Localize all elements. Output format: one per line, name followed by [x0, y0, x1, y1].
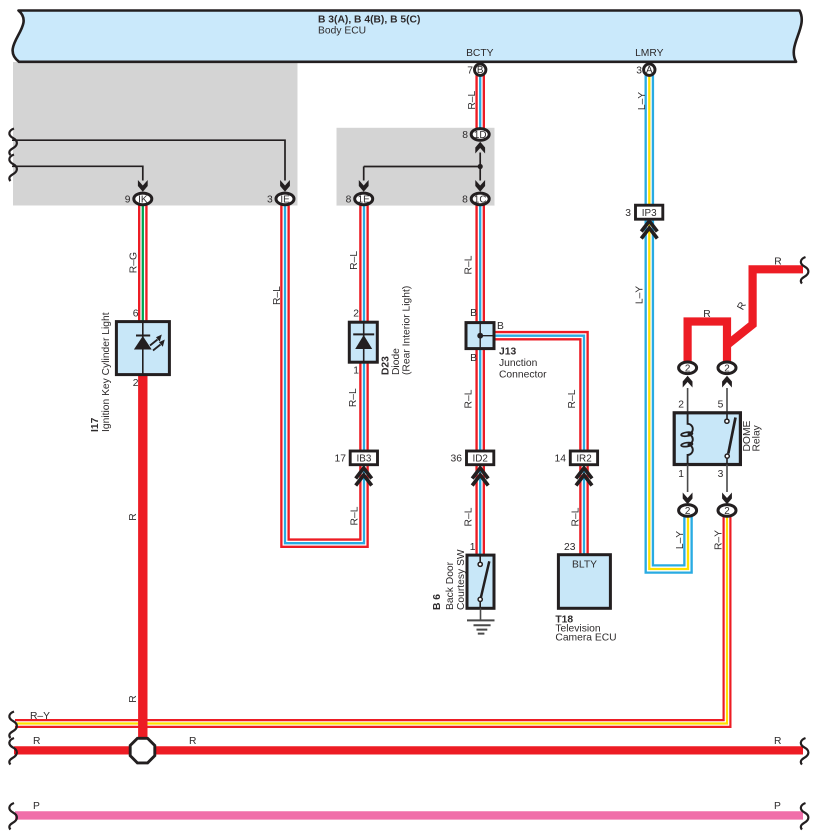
- wire label L-Y middle: [635, 286, 646, 304]
- svg-text:8: 8: [346, 195, 352, 206]
- connector IB3 pin 17: [335, 451, 378, 465]
- wire R-L branch from J13 right through IR2 to T18 pin 23: [492, 336, 584, 556]
- svg-text:B: B: [497, 321, 504, 332]
- svg-text:Diode: Diode: [391, 348, 402, 375]
- wire label L-Y upper: [637, 92, 648, 110]
- svg-text:R–L: R–L: [464, 507, 475, 526]
- wire label R-G: [129, 252, 140, 273]
- svg-text:Body ECU: Body ECU: [318, 26, 366, 37]
- ECU internal line to IK: [12, 166, 143, 180]
- svg-text:R: R: [33, 736, 40, 747]
- ECU internal line to IE: [12, 140, 285, 180]
- wire R-G from IK down to I17 pin 6: [138, 204, 148, 323]
- arrow into IK: [138, 180, 148, 192]
- wire R thick dome relay pins 2-5 bridge: [688, 322, 727, 364]
- middle block line: 1D arrow up: [475, 142, 485, 167]
- svg-text:36: 36: [451, 454, 463, 465]
- svg-text:I17: I17: [90, 417, 101, 432]
- wire R-L from 1C down through J13 and ID2 to B6 pin 1: [475, 204, 485, 556]
- svg-text:IE: IE: [280, 194, 290, 205]
- wire label R-L column 1E upper: [349, 251, 360, 270]
- svg-text:L–Y: L–Y: [675, 531, 686, 549]
- svg-text:R–L: R–L: [464, 255, 475, 274]
- svg-text:5: 5: [718, 400, 724, 411]
- component D23 diode (rear interior light): [349, 286, 412, 377]
- wire label R over relay bridge: [703, 309, 710, 320]
- connector oval 2 above relay pin 2: [679, 362, 697, 374]
- splice octagon junction: [130, 738, 155, 763]
- svg-text:IR2: IR2: [576, 453, 591, 464]
- connector oval 1C pin 8: [462, 193, 489, 205]
- wire R-L from 1E down to D23 pin 2: [359, 204, 369, 323]
- wire break squiggle R bottom left: [9, 738, 17, 765]
- svg-text:IK: IK: [138, 194, 148, 205]
- wire label R-L below B: [467, 90, 478, 109]
- component DOME relay: [674, 413, 762, 465]
- connector oval 2 above relay pin 5: [718, 362, 736, 374]
- gray connector shading block middle: [337, 128, 495, 206]
- svg-text:Back Door: Back Door: [445, 561, 456, 610]
- ground symbol below B6: [467, 608, 495, 633]
- wire label L-Y at relay: [675, 531, 686, 549]
- svg-text:Ignition Key Cylinder Light: Ignition Key Cylinder Light: [101, 312, 112, 432]
- svg-text:IB3: IB3: [356, 453, 371, 464]
- svg-text:2: 2: [353, 309, 359, 320]
- svg-text:2: 2: [133, 378, 139, 389]
- wire label R bottom left: [33, 736, 40, 747]
- wire label P right: [774, 801, 781, 812]
- svg-text:R–L: R–L: [350, 506, 361, 525]
- wire break squiggle P right: [801, 803, 809, 830]
- middle block line from junction dot to 1E and 1C: [364, 164, 483, 181]
- gray connector shading block left: [13, 62, 298, 206]
- svg-text:1: 1: [678, 469, 684, 480]
- component B6 back door courtesy switch: [432, 542, 494, 610]
- svg-text:R: R: [189, 736, 196, 747]
- dome relay pin lines top with arrows: [678, 376, 732, 412]
- wire L-Y from ECU pin 3A down to IP3 and U-turn up to dome relay connector: [649, 70, 688, 569]
- svg-text:3: 3: [267, 195, 273, 206]
- svg-text:R: R: [774, 257, 781, 268]
- svg-text:1: 1: [353, 366, 359, 377]
- wire R-L from IE down, U-turn right and up into IB3: [285, 204, 364, 543]
- svg-text:R–L: R–L: [272, 286, 283, 305]
- svg-text:R–L: R–L: [567, 389, 578, 408]
- wire R thick bottom bus: [14, 746, 803, 754]
- svg-text:BCTY: BCTY: [466, 48, 494, 59]
- svg-text:R: R: [128, 695, 139, 702]
- Body ECU banner: [13, 11, 802, 62]
- svg-text:2: 2: [678, 400, 684, 411]
- connector oval IK pin 9: [125, 193, 152, 205]
- svg-text:D23: D23: [381, 356, 392, 375]
- wire R-Y from dome relay pin 3 connector down and left to break: [15, 512, 727, 724]
- svg-text:L–Y: L–Y: [635, 286, 646, 304]
- wire label R on diagonal: [736, 300, 749, 312]
- connector IR2 pin 14: [555, 451, 598, 465]
- svg-text:1C: 1C: [474, 194, 487, 205]
- wire P pink bottom bus: [15, 811, 803, 819]
- wire label R vertical upper: [128, 513, 139, 520]
- svg-text:3: 3: [636, 66, 642, 77]
- wire R thick from bridge diagonally up to fusible link (right break): [727, 269, 803, 345]
- svg-text:B 6: B 6: [432, 594, 443, 610]
- svg-text:1E: 1E: [358, 194, 370, 205]
- wire label R-Y bottom: [30, 711, 50, 722]
- wire label R-L below IR2: [571, 507, 582, 526]
- svg-text:8: 8: [462, 195, 468, 206]
- wire break squiggle R bottom right: [801, 738, 809, 765]
- svg-text:1: 1: [470, 542, 476, 553]
- connector B circle pin 7: [467, 64, 486, 77]
- wire label R-L column 1E lower: [348, 388, 359, 407]
- svg-text:R: R: [774, 736, 781, 747]
- chevron pair below IB3: [356, 468, 372, 486]
- svg-text:2: 2: [685, 363, 691, 374]
- connector IP3 pin 3: [625, 205, 663, 219]
- wire break squiggle R-Y left: [9, 712, 17, 739]
- chevron pair below ID2: [472, 468, 488, 486]
- chevron pair below IR2: [576, 468, 592, 486]
- wire R thick from I17 pin 2 down to splice octagon: [138, 373, 147, 752]
- svg-text:B: B: [470, 353, 477, 364]
- arrow into IE: [280, 180, 290, 192]
- wire R-L from ECU pin 7B down to 1D: [475, 70, 485, 130]
- node BCTY label: [466, 48, 494, 59]
- svg-text:23: 23: [564, 542, 576, 553]
- svg-text:1D: 1D: [474, 130, 487, 141]
- wire label R bottom right: [774, 736, 781, 747]
- wire break squiggle line B: [9, 155, 17, 182]
- wire label R bottom mid: [189, 736, 196, 747]
- wire break squiggle P left: [9, 803, 17, 830]
- connector oval 2 below relay pin 3: [718, 505, 736, 517]
- svg-text:R–L: R–L: [467, 90, 478, 109]
- svg-text:IP3: IP3: [642, 208, 657, 219]
- svg-text:B: B: [470, 308, 477, 319]
- svg-text:B: B: [477, 65, 484, 76]
- connector oval 1D pin 8: [462, 129, 489, 141]
- svg-text:8: 8: [462, 130, 468, 141]
- svg-text:R–L: R–L: [348, 388, 359, 407]
- component J13 junction connector: [466, 308, 547, 381]
- connector ID2 pin 36: [451, 451, 494, 465]
- svg-text:P: P: [33, 801, 40, 812]
- chevron pair below IP3: [641, 221, 657, 239]
- wire R-L from D23 pin 1 down to IB3: [359, 361, 369, 458]
- svg-text:Connector: Connector: [499, 370, 547, 381]
- svg-text:17: 17: [335, 454, 347, 465]
- dome relay pin lines bottom with arrows: [678, 465, 732, 505]
- svg-text:P: P: [774, 801, 781, 812]
- wire break squiggle R top right: [801, 257, 809, 284]
- connector oval 2 below relay pin 1: [679, 505, 697, 517]
- svg-text:R–L: R–L: [464, 389, 475, 408]
- connector oval 1E pin 8: [346, 193, 373, 205]
- svg-text:6: 6: [133, 309, 139, 320]
- wire break squiggle line A: [9, 129, 17, 156]
- svg-text:R: R: [736, 300, 749, 312]
- svg-text:R: R: [703, 309, 710, 320]
- svg-text:LMRY: LMRY: [635, 48, 664, 59]
- wire label R-L branch right: [567, 389, 578, 408]
- wire label P left: [33, 801, 40, 812]
- svg-text:Camera ECU: Camera ECU: [555, 633, 616, 644]
- svg-text:Courtesy SW: Courtesy SW: [456, 549, 467, 610]
- svg-text:R–L: R–L: [349, 251, 360, 270]
- svg-text:L–Y: L–Y: [637, 92, 648, 110]
- connector oval IE pin 3: [267, 193, 294, 205]
- svg-text:3: 3: [625, 208, 631, 219]
- svg-text:Relay: Relay: [752, 424, 763, 451]
- wire label R vertical lower: [128, 695, 139, 702]
- svg-text:2: 2: [724, 506, 730, 517]
- svg-text:BLTY: BLTY: [572, 560, 597, 571]
- svg-text:J13: J13: [499, 347, 516, 358]
- wire label R-L on riser into IB3: [350, 506, 361, 525]
- svg-text:R–Y: R–Y: [714, 530, 725, 550]
- wire label R top right: [774, 257, 781, 268]
- wire label R-L below ID2: [464, 507, 475, 526]
- svg-text:R–Y: R–Y: [30, 711, 50, 722]
- connector A circle pin 3: [636, 64, 655, 77]
- arrow into 1C: [475, 180, 485, 192]
- wire label R-L below 1C: [464, 255, 475, 274]
- svg-text:3: 3: [718, 469, 724, 480]
- component I17 ignition key cylinder light: [90, 309, 169, 433]
- node LMRY label: [635, 48, 664, 59]
- svg-text:9: 9: [125, 195, 131, 206]
- svg-text:A: A: [646, 65, 653, 76]
- svg-text:7: 7: [467, 66, 473, 77]
- svg-text:Junction: Junction: [499, 358, 538, 369]
- svg-text:2: 2: [724, 363, 730, 374]
- svg-text:B 3(A), B 4(B), B 5(C): B 3(A), B 4(B), B 5(C): [318, 15, 420, 26]
- svg-text:(Rear Interior Light): (Rear Interior Light): [402, 286, 413, 375]
- svg-text:2: 2: [685, 506, 691, 517]
- wire label R-L below J13: [464, 389, 475, 408]
- svg-text:14: 14: [555, 454, 567, 465]
- arrow into 1E: [359, 180, 369, 192]
- component T18 television camera ECU: [555, 542, 616, 644]
- wire label R-Y at relay: [714, 530, 725, 550]
- svg-text:R–G: R–G: [129, 252, 140, 273]
- svg-text:R: R: [128, 513, 139, 520]
- wire label R-L column IE: [272, 286, 283, 305]
- svg-text:ID2: ID2: [473, 453, 488, 464]
- svg-text:R–L: R–L: [571, 507, 582, 526]
